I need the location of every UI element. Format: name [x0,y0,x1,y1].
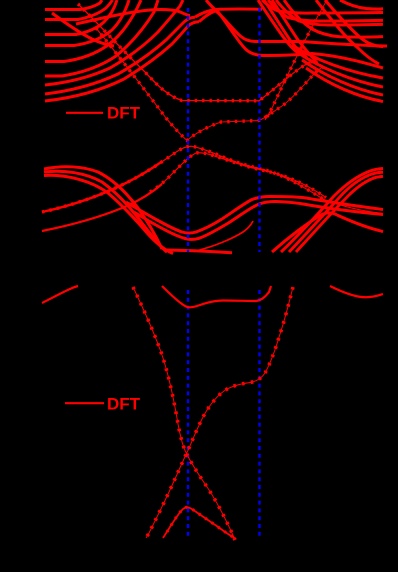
wire right fan G2 y20 [268,0,383,21]
wire diagonal d1 upper-left [52,13,114,46]
wire band H2 right sweep [292,45,383,78]
wire U-band lower rising to X [199,11,217,22]
wire U-band flat top K to Kp [195,9,262,17]
svg-text:DFT: DFT [107,395,141,414]
wire Dirac dotted D1 thin [133,287,235,540]
legend line top panel [66,112,103,114]
wire band sweep1 left y=61.5 [45,0,141,62]
K-point line bottom panel left [187,290,189,539]
wire valence dotted band V2 thin [42,146,383,213]
wire valence bundle V1b [44,171,167,252]
wire descending line F2 to flat y41 [214,10,387,47]
K-point line top panel left [187,8,189,252]
wire valence dotted band V2 left solid [42,162,162,213]
wire right fan G1 y12.5 [262,0,383,13]
K-point line top panel right [258,8,260,252]
wire valence U-band upper at K [126,197,383,234]
wire valence dotted band V3 left solid [42,184,162,231]
wire band sweep4 left y=94 into K minimum [45,17,195,94]
wire flat band solid thin y100 [78,4,318,101]
wire right steep diagonal s2 [325,0,383,47]
wire dotted steep diagonal right dots [265,0,327,120]
wire Dirac dotted D2 thin [146,287,293,538]
wire band stub4 upper-left y=45.5 [45,0,129,46]
wire bottom flat clipped band [167,250,232,253]
wire band stub1 upper-left y=9.5 [45,0,102,10]
wire solid arc top-right bottom panel [330,286,383,297]
wire dotted steep diagonal right [265,0,327,120]
wire right braid b2 [264,0,307,58]
wire tent dots overlay [167,507,233,537]
wire clipped V rising right V6c [289,172,383,252]
wire bottom X diagonal rising [194,221,253,252]
wire right braid b3 [272,0,316,61]
wire valence dotted band V2 dots [42,146,324,212]
wire solid conduction band bottom panel [162,286,271,307]
wire band H3 right sweep [297,52,383,87]
wire clipped V rising right V6b [281,169,383,252]
wire band H4 right sweep [302,60,383,95]
wire band sweep3 left y=85 [45,0,183,85]
wire Dirac dotted D1 dots [133,287,235,540]
wire flat band dots y100 [78,4,318,101]
wire valence bundle V1a [44,167,162,249]
wire valence dotted band V3 thin [42,153,326,231]
K-point line bottom panel right [258,290,260,539]
wire dotted conduction D-top dots [96,28,323,141]
wire right fan G0 y8.7 [340,0,383,9]
wire shallow crossing band A5 [76,10,190,25]
wire band H5 right sweep [306,68,383,102]
wire descending line F3 to flat y55 and right sweep [217,11,383,68]
wire solid tent valence band [163,507,236,539]
wire solid arc top-left bottom panel [42,286,78,303]
wire right fan G4 y36.6 [284,0,383,37]
wire Dirac dotted D2 dots [146,287,293,538]
wire right fan G3 y24 [276,0,383,25]
wire right steep diagonal s1 [316,0,379,64]
wire valence dotted band V3 dots [150,153,326,198]
wire band stub3 upper-left y=34.5 [45,0,117,35]
wire dotted conduction D-top thin [96,28,323,141]
wire band stub2 upper-left y=19.5 [45,0,113,20]
legend line bottom panel [65,402,104,404]
wire band sweep2 left y=76 [45,0,158,76]
wire clipped V rising right V6a [272,213,383,252]
wire top feed into X [206,0,215,10]
wire clipped V rising right V6d [296,176,383,252]
wire right braid b1 [258,0,298,53]
wire valence U-band lower at K [134,201,383,239]
wire valence bundle V1c [44,175,173,253]
svg-text:DFT: DFT [107,104,141,123]
wire band sweep5 left y=101 into K minimum lower [45,22,199,101]
